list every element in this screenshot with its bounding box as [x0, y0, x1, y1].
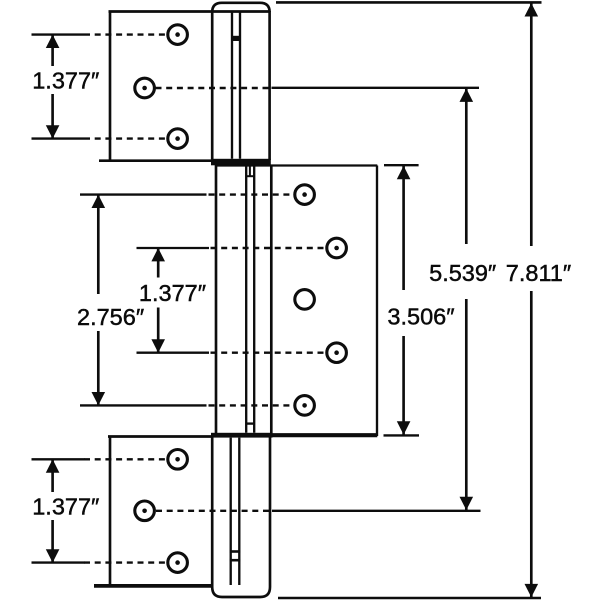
barrel bottom cap	[212, 587, 270, 597]
pin slot bottom left line	[230, 438, 232, 585]
tick top1	[32, 33, 85, 35]
dimension line 1.377 top	[46, 35, 60, 139]
hole top plate 2	[135, 78, 155, 98]
middle leaf plate top edge	[216, 164, 377, 166]
dotted line row top2	[156, 87, 272, 89]
top leaf plate top edge	[109, 10, 270, 13]
pin slot middle left line	[245, 166, 247, 433]
middle knuckle left edge	[215, 165, 218, 434]
hole bottom plate 1	[168, 450, 188, 470]
svg-text:3.506″: 3.506″	[387, 303, 454, 329]
dimension line 7.811	[525, 2, 539, 598]
svg-text:1.377″: 1.377″	[32, 493, 99, 519]
middle leaf plate bottom edge	[211, 433, 377, 437]
dotted line row bot2	[156, 510, 272, 512]
label 1.377 top	[30, 66, 101, 94]
middle leaf plate right edge	[376, 166, 378, 437]
dotted line row mid2	[211, 247, 326, 249]
label 7.811	[504, 246, 573, 291]
pin notch crossbar middle top	[246, 175, 254, 177]
hole middle plate 1	[295, 185, 315, 205]
dimension line 5.539	[460, 88, 474, 511]
barrel top cap	[212, 3, 269, 12]
top leaf plate left edge	[109, 12, 112, 162]
bottom leaf plate bottom edge	[94, 584, 214, 588]
pin crossbar bottom 1	[230, 550, 241, 553]
dotted line row mid4	[211, 352, 326, 354]
svg-text:7.811″: 7.811″	[506, 260, 571, 286]
bottom knuckle right edge	[269, 437, 272, 588]
label 1.377 bottom	[30, 492, 101, 520]
tick mid1	[80, 193, 207, 195]
dotted line row mid5	[209, 404, 294, 406]
tick 3.506 bottom	[384, 434, 420, 436]
tick 5.539 top	[272, 87, 480, 89]
tick top3	[32, 137, 85, 139]
dotted line row top1	[84, 33, 166, 35]
dimension line 3.506	[397, 165, 411, 435]
label 1.377 middle	[136, 278, 210, 308]
tick bot3	[32, 561, 85, 563]
tick 7.811 top	[276, 1, 542, 4]
hole middle plate 4	[327, 343, 347, 363]
pin slot top left line	[231, 12, 233, 159]
tick 7.811 bottom	[278, 597, 541, 600]
tick mid5	[80, 404, 207, 406]
dotted line row top3	[84, 137, 166, 139]
hole middle plate 2	[327, 238, 347, 258]
tick mid2	[137, 247, 210, 249]
dotted line row bot3	[84, 561, 166, 563]
svg-text:2.756″: 2.756″	[77, 304, 144, 330]
svg-text:5.539″: 5.539″	[429, 260, 496, 286]
dimension line 1.377 middle	[151, 248, 165, 353]
label 2.756	[74, 294, 147, 331]
tick bot1	[32, 458, 85, 460]
bottom leaf plate top edge	[108, 435, 214, 438]
hole middle plate 3 center	[295, 290, 315, 310]
pin notch line middle top	[249, 166, 251, 176]
hole top plate 3	[168, 129, 188, 149]
knuckle gap band top	[211, 159, 271, 166]
label 5.539	[428, 244, 500, 299]
dotted line row mid1	[209, 193, 294, 195]
label 3.506	[385, 290, 459, 336]
bottom knuckle left edge	[211, 437, 214, 588]
bottom leaf plate left edge	[109, 437, 112, 587]
middle knuckle right edge	[270, 165, 273, 434]
tick mid4	[137, 352, 210, 354]
dimension line 2.756	[92, 195, 106, 406]
pin slot bottom right line	[238, 438, 240, 585]
knuckle gap band bottom	[211, 433, 273, 438]
hole top plate 1	[168, 25, 188, 45]
hole middle plate 5	[295, 396, 315, 416]
svg-text:1.377″: 1.377″	[32, 68, 99, 94]
dotted line row bot1	[84, 458, 166, 460]
hole bottom plate 2	[135, 501, 155, 521]
pin crossbar middle bottom	[246, 422, 254, 424]
dimension line 1.377 bottom	[46, 459, 60, 562]
svg-text:1.377″: 1.377″	[139, 280, 206, 306]
pin slot top right line	[239, 12, 241, 159]
pin crossbar bottom 2	[230, 559, 241, 562]
tick 5.539 bottom	[272, 510, 481, 512]
hole bottom plate 3	[168, 553, 188, 573]
top leaf plate bottom edge	[99, 159, 215, 162]
top knuckle right edge	[268, 11, 271, 160]
pin slot middle right line	[253, 166, 255, 433]
top knuckle left edge	[211, 11, 214, 160]
pin crossbar top	[231, 36, 241, 41]
tick 3.506 top	[384, 164, 419, 166]
